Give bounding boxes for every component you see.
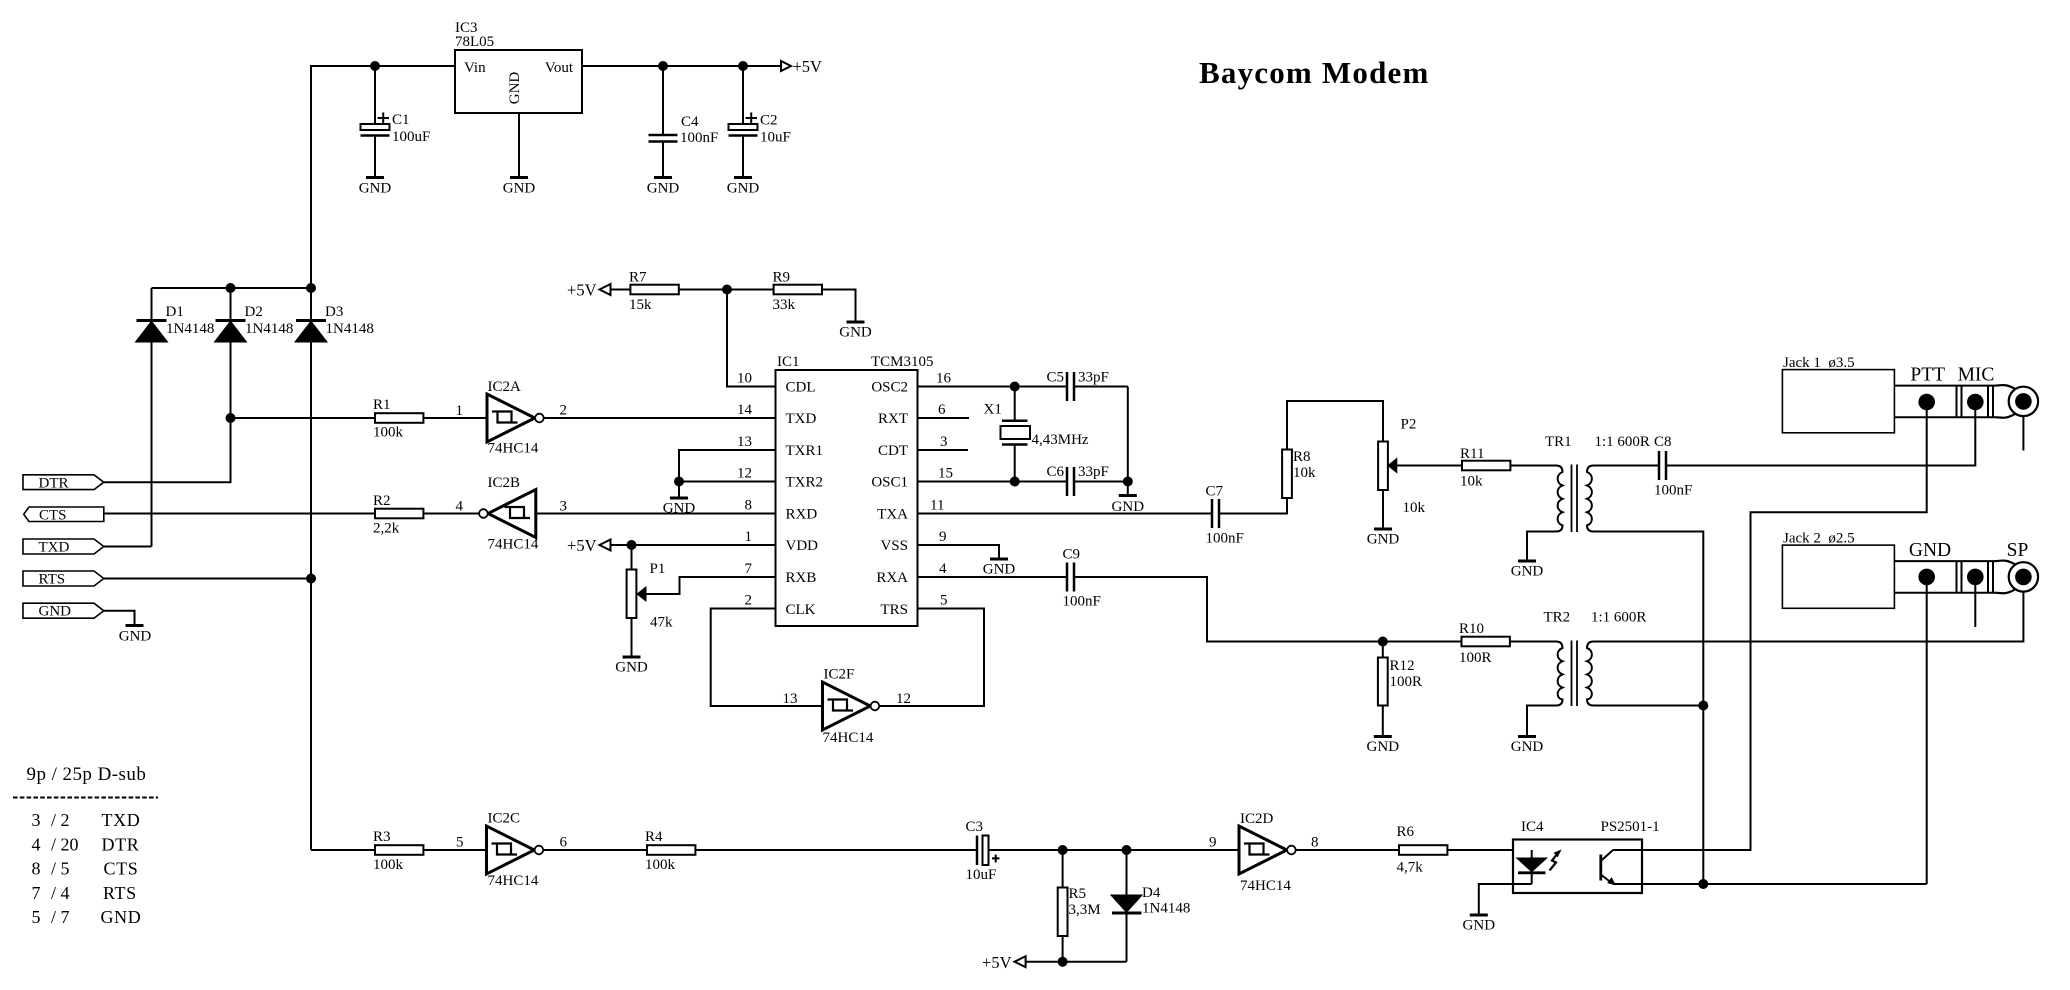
svg-text:Baycom Modem: Baycom Modem [1199, 55, 1430, 90]
wire J1 tip stub [2022, 416, 2024, 451]
node R5 bottom [1058, 957, 1068, 967]
wire TR1 left bottom to GND [1527, 532, 1556, 562]
svg-text:Vout: Vout [545, 60, 574, 76]
svg-text:15: 15 [938, 466, 953, 482]
svg-text:P1: P1 [650, 561, 666, 577]
svg-text:GND: GND [39, 604, 72, 620]
svg-text:DTR: DTR [39, 476, 69, 492]
svg-text:100nF: 100nF [1654, 483, 1692, 499]
svg-text:TXD: TXD [786, 411, 817, 427]
svg-text:74HC14: 74HC14 [1240, 878, 1291, 894]
wire Vout rail [582, 65, 781, 67]
optocoupler IC4 PS2501-1 [1513, 840, 1642, 894]
svg-text:10uF: 10uF [966, 867, 997, 883]
regulator IC3 78L05 [455, 50, 582, 113]
svg-text:+5V: +5V [793, 57, 823, 76]
svg-text:100uF: 100uF [392, 129, 430, 145]
svg-text:74HC14: 74HC14 [823, 730, 874, 746]
wire RXT pin 6 stub [918, 417, 970, 419]
svg-text:33k: 33k [773, 297, 796, 313]
inverter IC2A 74HC14 [487, 394, 535, 442]
svg-text:7/ 4RTS: 7/ 4RTS [32, 883, 137, 903]
svg-text:33pF: 33pF [1078, 464, 1109, 480]
svg-text:1N4148: 1N4148 [245, 321, 293, 337]
svg-text:IC2B: IC2B [488, 475, 521, 491]
resistor R10 100R [1462, 637, 1510, 647]
svg-text:TXR2: TXR2 [786, 475, 824, 491]
svg-text:1:1 600R: 1:1 600R [1595, 434, 1650, 450]
ground IC4 [1470, 914, 1488, 917]
svg-text:100k: 100k [373, 425, 404, 441]
svg-text:VSS: VSS [880, 538, 908, 554]
node CDL branch [722, 285, 732, 295]
svg-text:100R: 100R [1459, 650, 1492, 666]
wire TXR2 pin 12 [679, 481, 776, 483]
svg-text:GND: GND [1367, 739, 1400, 755]
wire IC3 GND pin [518, 113, 520, 178]
svg-text:C9: C9 [1063, 547, 1081, 563]
svg-text:R7: R7 [629, 270, 647, 286]
svg-text:C8: C8 [1654, 434, 1672, 450]
node C4 junction [658, 61, 668, 71]
capacitor C4 100nF [662, 66, 664, 134]
inverter IC2B 74HC14 [488, 490, 536, 538]
capacitor C6 33pF [1066, 467, 1069, 496]
capacitor C9 100nF [1066, 563, 1069, 592]
wire R5 bottom [1062, 936, 1064, 962]
svg-text:74HC14: 74HC14 [488, 441, 539, 457]
svg-text:R4: R4 [645, 829, 663, 845]
wire R8 top to P2 top [1287, 401, 1383, 450]
svg-text:3: 3 [560, 499, 568, 515]
diode D3 1N4148 [296, 319, 326, 322]
jack J1 tip contact [2015, 393, 2032, 410]
svg-text:2: 2 [560, 403, 568, 419]
svg-text:GND: GND [1909, 540, 1951, 561]
chip IC1 TCM3105 [776, 370, 918, 626]
potentiometer P1 47k [631, 545, 633, 570]
wire TXD to D1 [104, 546, 152, 548]
svg-text:100k: 100k [645, 857, 676, 873]
wire IC2A out to pin 14 [544, 417, 776, 419]
svg-text:1: 1 [745, 529, 753, 545]
ground IC3 [510, 176, 528, 179]
svg-text:+5V: +5V [982, 953, 1012, 972]
capacitor C7 100nF [1211, 499, 1214, 528]
svg-text:4/ 20DTR: 4/ 20DTR [32, 834, 140, 854]
node X1 top [1010, 382, 1020, 392]
wire TR2 right bottom [1594, 705, 1704, 707]
ground TR2 [1518, 735, 1536, 738]
node C6 right [1123, 477, 1133, 487]
wire TR1 right bottom down [1594, 532, 1704, 885]
jack J1 MIC contact [1967, 394, 1984, 411]
wire TR2 right top to SP [1594, 592, 2024, 642]
wire diode top rail [152, 287, 312, 289]
ground C2 [734, 176, 752, 179]
wire R2 to IC2B bubble [423, 513, 479, 515]
wire PTT to IC4 collector [1642, 402, 1927, 850]
wire R12 bottom [1382, 706, 1384, 737]
svg-text:GND: GND [1511, 739, 1544, 755]
svg-text:GND: GND [663, 501, 696, 517]
resistor R11 10k [1462, 461, 1510, 471]
svg-text:10k: 10k [1460, 474, 1483, 490]
svg-text:7: 7 [745, 561, 753, 577]
svg-text:C1: C1 [392, 112, 410, 128]
resistor R5 3,3M [1062, 850, 1064, 888]
wire R1 to IC2A [231, 417, 376, 419]
svg-text:R5: R5 [1069, 886, 1087, 902]
svg-text:TXA: TXA [877, 507, 908, 523]
wire RTS to D3 column [104, 578, 311, 580]
wire R6 to IC4 [1447, 849, 1531, 851]
svg-text:IC2D: IC2D [1240, 811, 1274, 827]
svg-text:IC2F: IC2F [824, 667, 855, 683]
connector flag RTS [23, 571, 104, 586]
wire TRS pin 5 [879, 609, 984, 707]
svg-text:4,7k: 4,7k [1397, 860, 1424, 876]
wire C9 to R10 [1074, 577, 1462, 642]
wire P2 bottom [1382, 490, 1384, 529]
wire R10 to TR2 [1510, 641, 1556, 643]
svg-text:GND: GND [119, 629, 152, 645]
svg-text:8: 8 [1311, 835, 1319, 851]
resistor R7 15k [611, 289, 631, 291]
wire CDT pin 3 stub [918, 449, 969, 451]
ground R9 [847, 321, 865, 324]
svg-text:1N4148: 1N4148 [326, 321, 374, 337]
wire IC4 emitter net [1613, 883, 1927, 885]
svg-text:+5V: +5V [567, 536, 597, 555]
svg-text:100nF: 100nF [1063, 594, 1101, 610]
svg-text:Jack 1 ø3.5: Jack 1 ø3.5 [1783, 355, 1855, 371]
svg-text:RXA: RXA [876, 570, 908, 586]
resistor R4 100k [647, 845, 695, 855]
svg-text:C3: C3 [966, 819, 984, 835]
svg-text:100R: 100R [1390, 674, 1423, 690]
ground TR1 [1518, 560, 1536, 563]
resistor R12 100R [1382, 642, 1384, 658]
svg-text:P2: P2 [1401, 417, 1417, 433]
svg-text:IC1: IC1 [777, 354, 800, 370]
svg-text:RXD: RXD [786, 507, 818, 523]
resistor R6 4,7k [1399, 845, 1447, 855]
diode D1 1N4148 [151, 288, 153, 322]
svg-text:47k: 47k [650, 615, 673, 631]
capacitor C3 10uF [976, 836, 979, 866]
svg-text:1N4148: 1N4148 [1142, 901, 1190, 917]
wire TXR1 pin 13 [679, 450, 776, 482]
wire TR2 left bottom to GND [1527, 706, 1556, 737]
ground crystal [1119, 494, 1137, 497]
svg-text:2,2k: 2,2k [373, 521, 400, 537]
ground P2 [1374, 528, 1392, 531]
svg-text:C2: C2 [760, 113, 778, 129]
diode D4 1N4148 [1126, 850, 1128, 896]
node TR join [1698, 701, 1708, 711]
svg-text:11: 11 [930, 498, 944, 514]
svg-text:TRS: TRS [880, 602, 908, 618]
svg-text:12: 12 [896, 691, 911, 707]
transformer TR2 1:1 600R [1556, 642, 1563, 706]
svg-text:D3: D3 [325, 304, 343, 320]
svg-text:CDL: CDL [786, 380, 816, 396]
resistor R9 33k [774, 285, 822, 295]
svg-text:CDT: CDT [878, 443, 908, 459]
potentiometer P2 10k [1378, 442, 1388, 491]
ground R12 [1374, 735, 1392, 738]
svg-text:SP: SP [2007, 540, 2029, 561]
wire CDL pin 10 [727, 290, 776, 387]
svg-text:IC4: IC4 [1521, 819, 1544, 835]
wire DTR to D2 [104, 418, 231, 482]
phototransistor inside IC4 [1599, 855, 1602, 881]
wire IC2B in to pin 8 [536, 513, 776, 515]
wire OSC2 pin 16 [918, 386, 1068, 388]
svg-text:C5: C5 [1047, 370, 1065, 386]
svg-text:R8: R8 [1293, 449, 1311, 465]
svg-text:IC2A: IC2A [488, 379, 522, 395]
svg-text:RXB: RXB [786, 570, 817, 586]
svg-text:CTS: CTS [39, 508, 67, 524]
svg-text:GND: GND [507, 72, 523, 105]
svg-text:R2: R2 [373, 493, 391, 509]
ground VSS [990, 558, 1008, 561]
jack J2 ring contact [1967, 569, 1984, 586]
node R12 branch [1378, 637, 1388, 647]
svg-text:9: 9 [1209, 835, 1217, 851]
svg-text:1: 1 [456, 403, 464, 419]
ground C4 [654, 176, 672, 179]
svg-text:VDD: VDD [786, 538, 819, 554]
svg-text:X1: X1 [984, 402, 1002, 418]
svg-text:1N4148: 1N4148 [166, 321, 214, 337]
node C1 junction [370, 61, 380, 71]
diode D2 1N4148 [230, 288, 232, 322]
wire P1 bottom [631, 618, 633, 657]
svg-text:15k: 15k [629, 297, 652, 313]
power +5V arrow R7 [600, 284, 611, 295]
svg-text:C4: C4 [681, 114, 699, 130]
wire J2 GND to emitter [1926, 577, 1928, 884]
ground flag [126, 624, 144, 627]
svg-text:100nF: 100nF [680, 130, 718, 146]
LED emission arrows [1550, 853, 1559, 871]
node emitter TR join [1698, 879, 1708, 889]
svg-text:D4: D4 [1142, 885, 1161, 901]
wire P1 wiper to RXB pin 7 [646, 577, 776, 594]
wire R3 to IC2C [423, 849, 486, 851]
resistor R1 100k [375, 413, 423, 423]
wire C8 to MIC [1666, 402, 1975, 466]
wire GND flag [104, 611, 135, 626]
resistor R2 2,2k [375, 509, 423, 519]
power +5V arrow VDD [600, 540, 611, 551]
svg-text:GND: GND [615, 660, 648, 676]
wire R4 to C3 [695, 849, 977, 851]
svg-text:13: 13 [783, 691, 798, 707]
connector flag TXD [23, 539, 104, 554]
node X1 bottom [1010, 477, 1020, 487]
inverter IC2F 74HC14 [823, 682, 871, 730]
node C2 junction [738, 61, 748, 71]
wire RXA pin 4 [918, 576, 1068, 578]
svg-text:3: 3 [940, 434, 948, 450]
svg-text:10uF: 10uF [760, 130, 791, 146]
svg-text:IC2C: IC2C [488, 811, 521, 827]
svg-text:R12: R12 [1390, 658, 1415, 674]
resistor R8 10k [1282, 450, 1292, 499]
svg-text:74HC14: 74HC14 [488, 873, 539, 889]
svg-text:R6: R6 [1397, 824, 1415, 840]
node TXR junction [674, 477, 684, 487]
svg-text:D1: D1 [166, 304, 184, 320]
ground P1 [623, 656, 641, 659]
svg-text:6: 6 [938, 402, 946, 418]
wire CTS to R2 [104, 513, 375, 515]
wire P2 wiper to R11 [1396, 465, 1462, 467]
svg-text:R9: R9 [773, 270, 791, 286]
svg-text:8: 8 [745, 498, 753, 514]
svg-text:9: 9 [939, 529, 947, 545]
power +5V arrow bottom [1015, 956, 1026, 967]
wire R9 to GND [822, 290, 856, 323]
svg-text:RXT: RXT [878, 411, 908, 427]
svg-text:3/ 2TXD: 3/ 2TXD [32, 810, 141, 830]
power +5V arrow top [781, 61, 791, 71]
svg-text:D2: D2 [245, 304, 263, 320]
connector flag GND [23, 603, 104, 618]
svg-text:R10: R10 [1459, 621, 1484, 637]
svg-text:10k: 10k [1403, 500, 1426, 516]
svg-text:74HC14: 74HC14 [488, 537, 539, 553]
svg-text:GND: GND [1511, 564, 1544, 580]
svg-text:4: 4 [939, 561, 947, 577]
wire R11 to TR1 [1510, 465, 1556, 467]
svg-text:PS2501-1: PS2501-1 [1601, 819, 1660, 835]
wire RTS column to R3 [311, 849, 375, 851]
svg-text:4,43MHz: 4,43MHz [1032, 432, 1089, 448]
svg-text:TXR1: TXR1 [786, 443, 824, 459]
wire OSC1 pin 15 [918, 481, 1068, 483]
connector flag DTR [23, 475, 104, 490]
svg-text:Vin: Vin [464, 60, 486, 76]
LED inside IC4 [1531, 850, 1533, 859]
svg-text:100k: 100k [373, 857, 404, 873]
svg-text:4: 4 [456, 499, 464, 515]
wire crystal right leg [1127, 387, 1129, 496]
svg-text:GND: GND [983, 562, 1016, 578]
svg-text:13: 13 [737, 434, 752, 450]
wire C3 to IC2D [989, 849, 1240, 851]
svg-text:9p / 25p D-sub: 9p / 25p D-sub [27, 764, 147, 785]
node RTS on D3 column [306, 574, 316, 584]
node D2 top [226, 283, 236, 293]
svg-text:16: 16 [936, 371, 952, 387]
jack J1 PTT contact [1918, 394, 1935, 411]
node R1 branch [226, 413, 236, 423]
wire TR1 right top to C8 [1594, 465, 1660, 467]
svg-text:5/ 7GND: 5/ 7GND [32, 907, 142, 927]
table divider [13, 797, 158, 799]
svg-text:10: 10 [737, 371, 752, 387]
capacitor C1 100uF [374, 66, 376, 124]
svg-text:TCM3105: TCM3105 [871, 354, 934, 370]
svg-text:1:1 600R: 1:1 600R [1591, 610, 1646, 626]
svg-text:14: 14 [737, 402, 753, 418]
capacitor C8 100nF [1658, 451, 1661, 480]
svg-text:100nF: 100nF [1206, 531, 1244, 547]
resistor R3 100k [375, 845, 423, 855]
svg-text:2: 2 [745, 593, 753, 609]
wire input rail top left [311, 66, 455, 850]
svg-text:33pF: 33pF [1078, 370, 1109, 386]
wire IC2C to R4 [543, 849, 647, 851]
wire IC4 collector [1613, 849, 1642, 851]
svg-text:C6: C6 [1047, 464, 1065, 480]
connector flag CTS [24, 507, 104, 522]
svg-text:CLK: CLK [786, 602, 816, 618]
wire IC4 cathode to GND [1479, 884, 1532, 915]
svg-text:5: 5 [940, 593, 948, 609]
jack J2 SP contact [2015, 569, 2032, 586]
svg-text:3,3M: 3,3M [1069, 902, 1101, 918]
svg-text:Jack 2 ø2.5: Jack 2 ø2.5 [1783, 531, 1855, 547]
wire TXA pin 11 [918, 513, 1213, 515]
svg-text:5: 5 [456, 835, 464, 851]
svg-text:78L05: 78L05 [455, 34, 494, 50]
svg-text:R11: R11 [1460, 446, 1484, 462]
svg-text:6: 6 [560, 835, 568, 851]
svg-text:+5V: +5V [567, 281, 597, 300]
ground C1 [366, 176, 384, 179]
svg-text:GND: GND [839, 325, 872, 341]
jack J2 GND contact [1918, 569, 1935, 586]
svg-text:C7: C7 [1206, 484, 1224, 500]
wire VSS pin 9 [918, 545, 1000, 559]
svg-text:GND: GND [727, 181, 760, 197]
ground TXR [670, 497, 688, 500]
inverter IC2C 74HC14 [487, 826, 535, 874]
crystal X1 4,43MHz [1014, 387, 1016, 421]
wire +5V to R5 D4 [1026, 961, 1127, 963]
node P1 branch [627, 540, 637, 550]
svg-text:8/ 5CTS: 8/ 5CTS [32, 859, 139, 879]
svg-text:RTS: RTS [39, 572, 66, 588]
node D4 top [1122, 845, 1132, 855]
transformer TR1 1:1 600R [1556, 466, 1563, 532]
svg-text:OSC2: OSC2 [871, 380, 908, 396]
capacitor C5 33pF [1066, 372, 1069, 401]
svg-text:GND: GND [647, 181, 680, 197]
node R5 top [1058, 845, 1068, 855]
svg-text:OSC1: OSC1 [871, 475, 908, 491]
svg-text:GND: GND [1463, 918, 1496, 934]
svg-text:PTT: PTT [1910, 365, 1945, 386]
wire R7 to R9 [679, 289, 774, 291]
svg-text:12: 12 [737, 466, 752, 482]
svg-text:GND: GND [1367, 532, 1400, 548]
svg-text:TXD: TXD [39, 540, 70, 556]
svg-text:R1: R1 [373, 397, 391, 413]
svg-text:R3: R3 [373, 829, 391, 845]
capacitor C2 10uF [742, 66, 744, 124]
wire TXR to GND [678, 482, 680, 499]
wire CLK pin 2 [711, 609, 823, 707]
wire IC2D to R6 [1296, 849, 1399, 851]
svg-text:GND: GND [359, 181, 392, 197]
